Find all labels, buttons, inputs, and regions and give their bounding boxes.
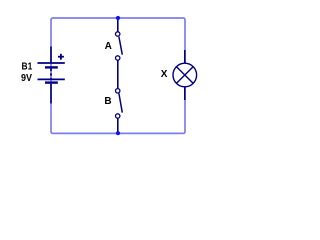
svg-text:B: B (104, 96, 111, 107)
switch B terminal top (116, 89, 120, 93)
svg-text:X: X (161, 69, 168, 80)
lamp X circle (173, 63, 197, 87)
battery B1 lead bottom (50, 84, 52, 104)
switch A terminal top (116, 32, 120, 36)
switch B lever (open) (119, 93, 122, 112)
wire: switch B to bottom junction (117, 118, 119, 133)
svg-text:B1: B1 (22, 62, 33, 73)
wire outer loop (light blue) (51, 18, 185, 133)
lamp X lead top (184, 50, 186, 64)
svg-text:9V: 9V (21, 73, 32, 84)
svg-text:A: A (105, 41, 112, 52)
lamp X lead bottom (184, 87, 186, 100)
switch A lever (open) (119, 37, 122, 55)
wire between switch A and switch B (117, 60, 119, 88)
switch B terminal bottom (116, 114, 120, 118)
battery dashed middle (50, 69, 52, 80)
lamp X cross (177, 67, 194, 84)
battery B1 lead top (50, 47, 52, 63)
junction node top (116, 16, 120, 20)
battery B1 plates cell 2 (38, 78, 65, 80)
switch branch wire: junction to switch A (117, 18, 119, 32)
battery B1 plates cell 1 (38, 62, 65, 64)
switch A terminal bottom (116, 56, 120, 60)
battery plus sign (58, 56, 64, 58)
junction node bottom (116, 131, 120, 135)
